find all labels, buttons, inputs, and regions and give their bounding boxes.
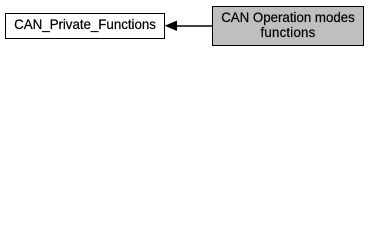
node box CAN Operation modes functions (current, grey) — [213, 7, 364, 46]
svg-text:CAN_Private_Functions: CAN_Private_Functions — [14, 17, 156, 32]
arrowhead pointing left at CAN_Private_Functions — [165, 21, 177, 31]
svg-text:CAN Operation modes: CAN Operation modes — [221, 10, 355, 25]
svg-text:functions: functions — [261, 25, 316, 40]
edge wire from grey node to CAN_Private_Functions — [175, 25, 213, 27]
background — [0, 0, 369, 52]
node box CAN_Private_Functions — [6, 14, 165, 39]
